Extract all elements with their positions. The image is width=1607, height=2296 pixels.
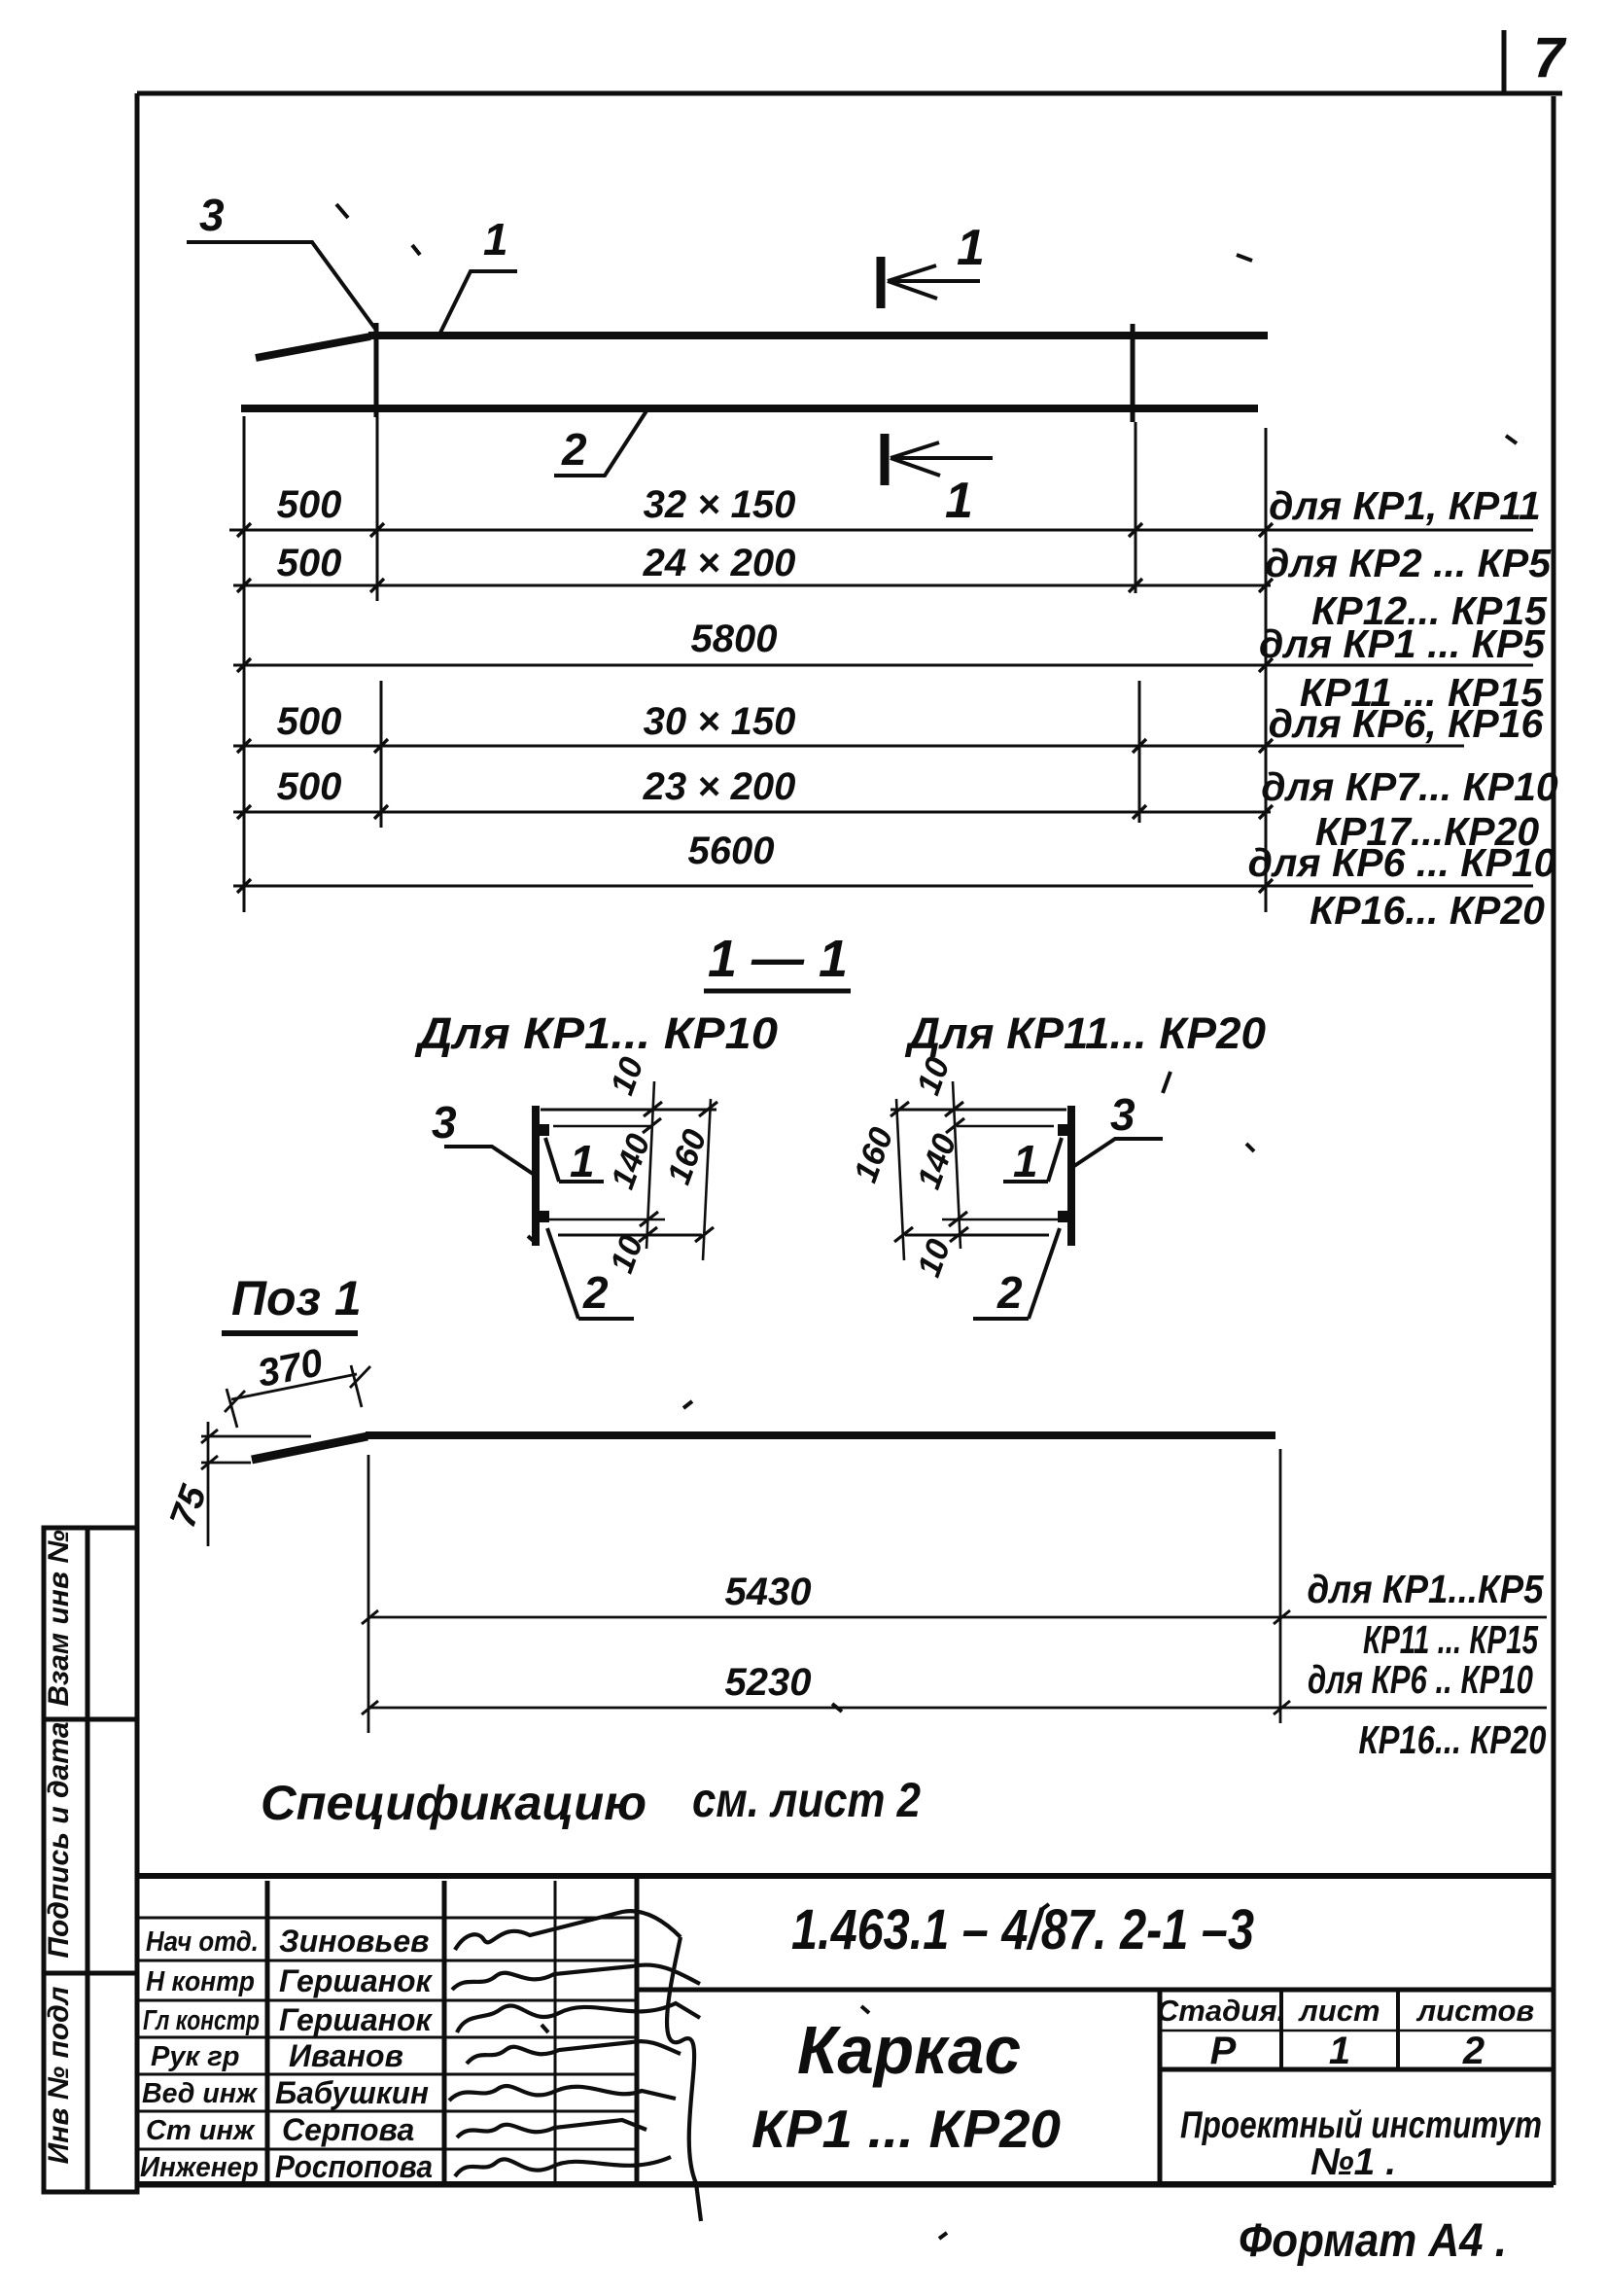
svg-text:5430: 5430 <box>725 1571 812 1613</box>
svg-text:Ст инж: Ст инж <box>146 2115 256 2146</box>
svg-text:для КР6, КР16: для КР6, КР16 <box>1269 701 1545 746</box>
svg-text:КР1 ... КР20: КР1 ... КР20 <box>751 2099 1061 2159</box>
svg-text:лист: лист <box>1297 1994 1380 2028</box>
svg-text:Формат А4 .: Формат А4 . <box>1239 2215 1507 2267</box>
svg-text:24 × 200: 24 × 200 <box>643 542 796 584</box>
svg-text:2: 2 <box>1462 2030 1485 2072</box>
svg-text:Спецификацию: Спецификацию <box>261 1776 646 1830</box>
svg-text:7: 7 <box>1533 26 1567 89</box>
svg-text:1: 1 <box>483 214 508 265</box>
svg-text:5800: 5800 <box>691 618 778 660</box>
svg-text:Гершанок: Гершанок <box>279 2002 434 2037</box>
svg-text:Зиновьев: Зиновьев <box>279 1924 429 1959</box>
svg-text:5600: 5600 <box>688 830 775 872</box>
svg-text:для КР2 ... КР5: для КР2 ... КР5 <box>1265 541 1552 585</box>
svg-text:Подпись и дата: Подпись и дата <box>43 1721 75 1958</box>
svg-text:Стадия.: Стадия. <box>1157 1994 1285 2028</box>
svg-text:Поз 1: Поз 1 <box>231 1271 362 1325</box>
svg-text:3: 3 <box>1110 1089 1135 1140</box>
svg-text:для КР1, КР11: для КР1, КР11 <box>1269 483 1541 528</box>
svg-text:Инженер: Инженер <box>140 2152 259 2183</box>
svg-text:КР11 ... КР15: КР11 ... КР15 <box>1363 1617 1539 1662</box>
svg-text:Каркас: Каркас <box>797 2012 1021 2088</box>
svg-text:Нач отд.: Нач отд. <box>146 1926 259 1958</box>
svg-text:Рук гр: Рук гр <box>151 2041 239 2072</box>
svg-text:КР16... КР20: КР16... КР20 <box>1359 1717 1547 1762</box>
svg-text:Роспопова: Роспопова <box>275 2149 433 2184</box>
svg-text:Гершанок: Гершанок <box>279 1963 434 1998</box>
svg-text:для КР6 ... КР10: для КР6 ... КР10 <box>1248 840 1556 885</box>
svg-text:1: 1 <box>957 220 985 276</box>
svg-text:23 × 200: 23 × 200 <box>643 765 796 808</box>
svg-text:для КР1 ... КР5: для КР1 ... КР5 <box>1259 621 1546 666</box>
svg-text:500: 500 <box>277 700 342 743</box>
svg-text:Вед инж: Вед инж <box>142 2078 259 2109</box>
svg-text:для КР7... КР10: для КР7... КР10 <box>1261 764 1558 809</box>
svg-text:листов: листов <box>1415 1994 1534 2028</box>
svg-text:для КР6 .. КР10: для КР6 .. КР10 <box>1308 1657 1533 1702</box>
svg-text:для КР1...КР5: для КР1...КР5 <box>1308 1567 1545 1611</box>
svg-text:1.463.1 – 4/87. 2-1 –3: 1.463.1 – 4/87. 2-1 –3 <box>791 1898 1254 1961</box>
svg-text:Для КР11... КР20: Для КР11... КР20 <box>904 1008 1266 1058</box>
svg-text:Взам инв №: Взам инв № <box>43 1530 75 1706</box>
svg-text:3: 3 <box>199 190 225 240</box>
svg-text:Иванов: Иванов <box>289 2038 403 2073</box>
svg-text:5230: 5230 <box>725 1661 812 1704</box>
svg-text:1: 1 <box>945 473 973 529</box>
svg-text:КР16... КР20: КР16... КР20 <box>1310 888 1545 933</box>
svg-text:Для КР1... КР10: Для КР1... КР10 <box>414 1008 778 1058</box>
svg-text:1 — 1: 1 — 1 <box>708 930 848 988</box>
svg-text:№1 .: №1 . <box>1310 2141 1396 2183</box>
svg-text:500: 500 <box>277 765 342 808</box>
svg-text:1: 1 <box>1013 1136 1038 1186</box>
svg-text:Проектный институт: Проектный институт <box>1180 2104 1542 2146</box>
svg-text:Бабушкин: Бабушкин <box>275 2075 429 2110</box>
svg-text:см. лист 2: см. лист 2 <box>692 1773 921 1827</box>
svg-text:1: 1 <box>1329 2030 1350 2072</box>
svg-text:Р: Р <box>1210 2030 1237 2072</box>
svg-text:32 × 150: 32 × 150 <box>644 483 796 526</box>
svg-text:Гл констр: Гл констр <box>143 2005 260 2036</box>
svg-text:Серпова: Серпова <box>282 2112 414 2147</box>
svg-text:Инв № подл: Инв № подл <box>43 1986 75 2164</box>
svg-text:1: 1 <box>570 1136 595 1186</box>
svg-text:500: 500 <box>277 483 342 526</box>
svg-text:2: 2 <box>582 1267 609 1318</box>
svg-text:30 × 150: 30 × 150 <box>644 700 796 743</box>
svg-text:2: 2 <box>996 1267 1023 1318</box>
svg-text:3: 3 <box>432 1097 457 1148</box>
svg-text:Н контр: Н контр <box>146 1966 255 1997</box>
svg-text:2: 2 <box>561 424 587 475</box>
svg-text:500: 500 <box>277 542 342 584</box>
